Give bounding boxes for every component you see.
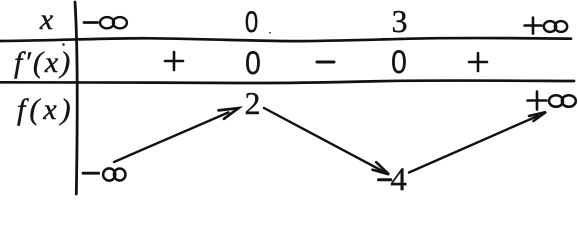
svg-text:3: 3 — [392, 3, 408, 39]
row3 minus-infinity: minus stroke — [83, 172, 99, 175]
arrow up 1 head — [219, 108, 239, 119]
arrow up 3 head — [529, 112, 546, 121]
svg-text:x: x — [39, 3, 54, 36]
stray dot above f'(x) — [62, 43, 65, 46]
horizontal line 2 (below f'(x) row) — [0, 81, 574, 83]
row3 minus-infinity: infinity loops — [103, 168, 125, 180]
arrow down 2 shaft — [264, 108, 385, 172]
row1 minus-infinity: infinity loops — [100, 17, 127, 28]
row2 minus sign — [317, 61, 334, 64]
arrow up 1 shaft — [114, 112, 229, 162]
row2 plus sign 1 — [165, 52, 183, 70]
row2 zero 2 — [391, 45, 407, 80]
row1 plus-infinity: plus strokes — [525, 18, 542, 34]
svg-text:2: 2 — [245, 85, 261, 121]
row1 zero — [245, 4, 258, 38]
row2 zero 1 — [245, 46, 261, 81]
svg-text:0: 0 — [245, 46, 261, 81]
svg-text:4: 4 — [390, 162, 407, 198]
horizontal line 1 (below x row) — [0, 38, 571, 41]
row1 minus-infinity: minus stroke — [84, 21, 98, 24]
vertical separator line — [75, 2, 77, 194]
row2 plus sign 2 — [469, 53, 487, 71]
svg-text:f′(x): f′(x) — [14, 46, 72, 79]
svg-text:f(x): f(x) — [17, 93, 75, 126]
svg-text:0: 0 — [245, 4, 258, 38]
row3 plus-infinity: plus strokes — [528, 92, 547, 110]
arrow down 2 head — [373, 162, 390, 174]
row1 plus-infinity: infinity loops — [544, 21, 567, 32]
arrow up 3 shaft — [409, 116, 538, 173]
row3 plus-infinity: infinity loops — [549, 95, 576, 107]
stray speck near line1 — [269, 32, 271, 34]
row3 value -4: minus stroke — [379, 178, 391, 181]
svg-text:0: 0 — [391, 45, 407, 80]
